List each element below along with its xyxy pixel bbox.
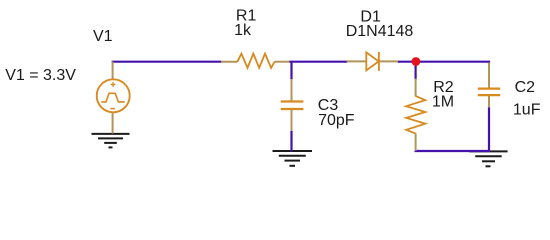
svg-text:1k: 1k xyxy=(234,22,252,39)
pin C2 bottom xyxy=(488,96,490,108)
wire C3 to ground xyxy=(290,131,292,152)
ground G2 under C3 xyxy=(273,151,313,166)
capacitor C2 plates xyxy=(478,89,500,96)
pin R1 left xyxy=(221,61,238,63)
ground G3 bottom right xyxy=(469,151,507,166)
wire D1 to C2 corner xyxy=(398,62,490,65)
resistor R1 zigzag xyxy=(237,54,274,68)
pin R1 right xyxy=(274,61,289,63)
wire main V1 to R1 xyxy=(112,61,222,63)
pin R2 bottom xyxy=(415,133,417,151)
diode D1 cathode bar xyxy=(378,52,380,71)
svg-text:V1: V1 xyxy=(93,28,113,45)
pin C3 top xyxy=(291,79,293,101)
svg-text:1uF: 1uF xyxy=(513,101,541,118)
wire node to R2 xyxy=(415,62,417,80)
pin D1 right xyxy=(380,60,399,62)
V1 pulse waveform xyxy=(101,93,125,102)
ground G1 under V1 xyxy=(92,134,130,148)
svg-text:V1 = 3.3V: V1 = 3.3V xyxy=(5,67,76,84)
resistor R2 zigzag xyxy=(406,96,425,134)
wire R1 to D1 xyxy=(289,61,348,63)
svg-text:C2: C2 xyxy=(515,79,536,96)
V1 minus mark xyxy=(110,108,115,110)
pin R2 top xyxy=(415,79,417,97)
V1 plus mark xyxy=(111,82,116,87)
source V1 circle xyxy=(97,79,130,112)
svg-text:D1N4148: D1N4148 xyxy=(346,23,414,40)
pin V1 bottom xyxy=(112,113,114,134)
wire bottom R2 to ground xyxy=(415,150,490,152)
pin C3 bottom xyxy=(291,110,293,131)
svg-text:1M: 1M xyxy=(432,94,454,111)
junction dot node xyxy=(412,57,421,66)
pin V1 top xyxy=(112,62,114,80)
wire junction down to C3 xyxy=(290,62,292,80)
capacitor C3 plates xyxy=(281,102,304,110)
svg-text:70pF: 70pF xyxy=(318,112,355,129)
pin D1 left xyxy=(347,60,367,62)
pin C2 top xyxy=(488,63,490,88)
wire C2 bottom xyxy=(488,107,490,152)
diode D1 triangle xyxy=(366,52,378,70)
